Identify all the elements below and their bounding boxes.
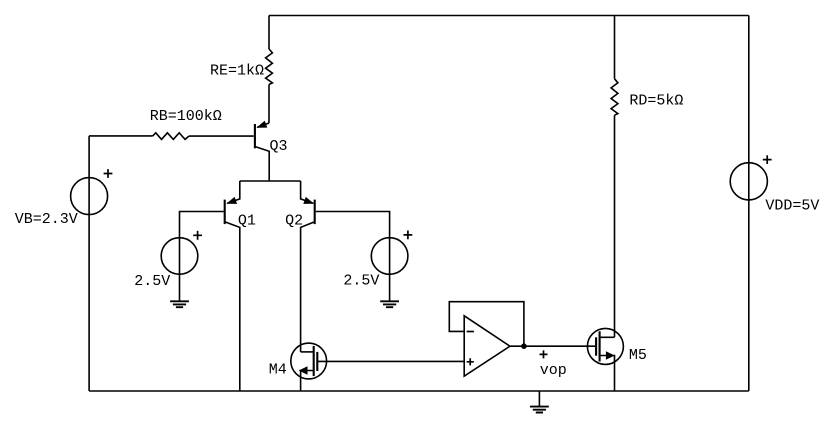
svg-text:VDD=5V: VDD=5V [765,197,819,214]
mosfet M4 drain lead [301,351,314,353]
plus VB [104,169,113,178]
transistor Q2 emitter [301,181,314,203]
op-amp U1 triangle [464,316,510,376]
transistor Q3 emitter [257,123,269,127]
wire RB to Q3 base [189,135,254,137]
ground main [538,391,540,407]
wire M4 gate to op-amp noninverting input [317,360,464,362]
transistor Q3 bar [254,124,256,148]
mosfet M4 circle [291,343,327,379]
wire VB to RB [89,135,153,137]
mosfet M5 gate bar [595,337,597,355]
wire VDD vertical [748,16,750,392]
wire emitter harness [240,180,301,182]
node vop junction dot [521,343,527,349]
svg-text:Q3: Q3 [270,138,288,155]
source V1 2.5V circle [161,238,198,275]
plus V2 [404,231,413,240]
op-amp minus sign [467,331,474,333]
transistor Q3 collector [255,147,269,182]
svg-text:Q2: Q2 [285,213,303,230]
resistor RB [153,133,189,140]
wire RE to Q3 emitter [268,85,270,124]
wire V2 through [389,238,391,275]
svg-text:M5: M5 [629,347,647,364]
mosfet M5 channel bar [599,331,601,361]
resistor RE [266,49,273,85]
transistor Q1 collector [225,222,240,391]
transistor Q1 base wire [180,212,224,238]
wire RE top lead [268,16,270,50]
mosfet M5 source lead [600,356,615,392]
svg-text:Q1: Q1 [238,213,256,230]
wire top rail (VDD net) [269,15,749,17]
source V2 2.5V circle [371,238,408,275]
wire VB vertical [88,136,90,391]
mosfet M4 gate bar [316,352,318,371]
wire op-amp inverting input feedback [449,302,524,347]
transistor Q2 collector [301,222,315,352]
source VDD circle [730,163,767,200]
plus vop [540,350,548,358]
svg-text:M4: M4 [269,362,287,379]
ground below V1 [179,274,181,301]
wire RD top lead [614,16,616,79]
mosfet M4 source lead [301,371,314,392]
svg-text:RB=100kΩ: RB=100kΩ [150,108,222,125]
source VB circle [71,178,108,215]
plus VDD [763,155,772,164]
wire bottom rail (ground net) [89,390,749,392]
wire RD to M5 drain [614,115,616,337]
svg-text:RE=1kΩ: RE=1kΩ [210,62,264,79]
svg-text:2.5V: 2.5V [134,273,170,290]
transistor Q2 bar [314,200,316,225]
svg-text:RD=5kΩ: RD=5kΩ [629,92,683,109]
mosfet M5 drain lead [600,336,615,338]
op-amp plus sign [467,358,474,365]
mosfet M4 channel bar [313,346,315,376]
svg-text:2.5V: 2.5V [343,273,379,290]
ground below V2 [389,274,391,301]
resistor RD [611,79,618,115]
plus V1 [193,231,202,240]
svg-text:vop: vop [540,362,567,379]
wire V1 through [179,238,181,275]
transistor Q1 bar [224,200,226,225]
mosfet M5 circle [587,328,623,364]
transistor Q1 emitter [227,181,240,203]
transistor Q2 base wire [316,212,390,238]
wire op-amp output [510,345,596,347]
svg-text:VB=2.3V: VB=2.3V [15,211,78,228]
